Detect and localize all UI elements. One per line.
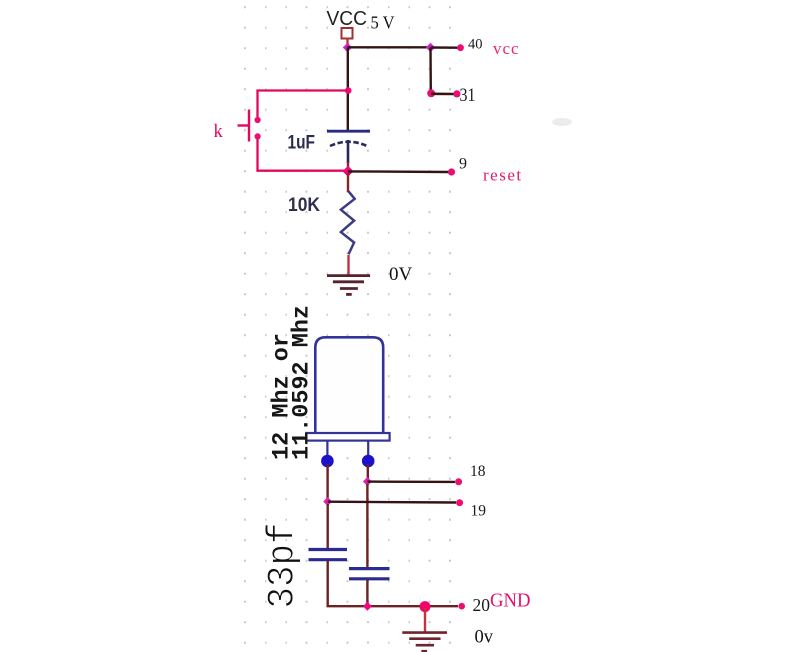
- VCC power terminal: [342, 28, 353, 39]
- svg-text:40: 40: [468, 37, 483, 53]
- svg-text:11.0592 Mhz: 11.0592 Mhz: [289, 305, 315, 460]
- pin 18 dot: [455, 478, 462, 485]
- svg-text:vcc: vcc: [493, 39, 520, 58]
- svg-text:31: 31: [460, 85, 476, 106]
- svg-text:19: 19: [471, 503, 487, 520]
- svg-text:GND: GND: [490, 590, 531, 612]
- wire C2 down and along bottom: [328, 561, 458, 606]
- svg-text:0v: 0v: [475, 628, 494, 648]
- wire J3 to pin 9: [348, 170, 449, 173]
- wire J7 down to capacitor C3: [366, 484, 368, 567]
- switch K stem: [238, 124, 250, 126]
- svg-text:k: k: [214, 122, 224, 142]
- node switch-top on vertical wire: [345, 87, 352, 94]
- node junction J6 ground tap: [420, 601, 431, 612]
- capacitor C2 bottom plate: [309, 558, 348, 561]
- wire R1 to ground: [347, 255, 349, 275]
- wire J6 to ground G2: [424, 608, 426, 632]
- crystal Y1 body: [315, 337, 383, 433]
- capacitor C2 top plate: [309, 548, 348, 551]
- svg-text:1uF: 1uF: [288, 132, 316, 154]
- capacitor C3 bottom plate: [349, 577, 390, 580]
- wire C3 down to bottom wire: [366, 580, 368, 606]
- pin 40 dot: [457, 44, 464, 51]
- wire J7 to pin 18: [367, 480, 455, 483]
- capacitor C1 top plate: [327, 130, 370, 133]
- wire J4 to pin 19: [328, 501, 456, 504]
- svg-text:reset: reset: [483, 166, 523, 185]
- crystal Y1 base slab: [306, 433, 389, 441]
- switch K actuator bar: [248, 110, 250, 142]
- wire left lead down: [326, 464, 328, 499]
- node junction J1: [343, 43, 352, 52]
- ground symbol G1: [327, 276, 370, 295]
- pin 31 dot: [453, 90, 460, 97]
- capacitor C3 top plate: [349, 567, 390, 570]
- node junction J2: [426, 43, 435, 52]
- wire C1 stem to J3: [347, 162, 349, 171]
- pin 19 dot: [456, 499, 463, 506]
- svg-text:20: 20: [473, 595, 491, 615]
- pin 9 dot: [448, 168, 455, 175]
- svg-text:VCC: VCC: [327, 8, 368, 30]
- svg-text:10K: 10K: [288, 195, 320, 216]
- switch K top contact: [255, 117, 261, 123]
- wire J2 to pin 40: [431, 46, 459, 49]
- crystal lead dot left: [321, 455, 334, 468]
- svg-text:33pf: 33pf: [262, 523, 305, 609]
- node junction J4: [323, 497, 332, 506]
- pin 20 dot: [458, 603, 465, 610]
- node junction J3: [343, 166, 354, 177]
- svg-text:9: 9: [459, 156, 467, 173]
- capacitor C1 curved plate: [330, 142, 367, 146]
- wire switch top net: [258, 91, 349, 118]
- wire right lead down: [367, 464, 369, 479]
- node junction J5: [363, 602, 372, 611]
- switch K bottom contact: [255, 133, 261, 139]
- wire J4 down to capacitor C2: [327, 504, 329, 548]
- node junction J7: [363, 477, 372, 486]
- crystal lead left: [326, 441, 328, 456]
- wire J3 down to resistor R1: [347, 173, 349, 192]
- capacitor C1 stem: [347, 140, 350, 163]
- wire VCC terminal to node: [346, 39, 348, 47]
- faint smudge: [552, 118, 572, 126]
- wire J1 down to capacitor C1: [347, 48, 349, 131]
- corner dot pin 31: [427, 89, 435, 97]
- svg-text:0V: 0V: [389, 264, 413, 285]
- ground symbol G2: [402, 633, 447, 652]
- svg-text:5 V: 5 V: [371, 13, 395, 33]
- crystal lead right: [367, 441, 369, 456]
- crystal lead dot right: [362, 455, 375, 468]
- wire J1 to J2: [348, 46, 431, 48]
- resistor R1 10K: [341, 191, 355, 254]
- wire J2 down to pin 31 corner: [429, 48, 432, 94]
- wire switch bottom net: [258, 139, 346, 171]
- svg-text:18: 18: [470, 463, 486, 480]
- wire corner to pin 31: [431, 93, 454, 96]
